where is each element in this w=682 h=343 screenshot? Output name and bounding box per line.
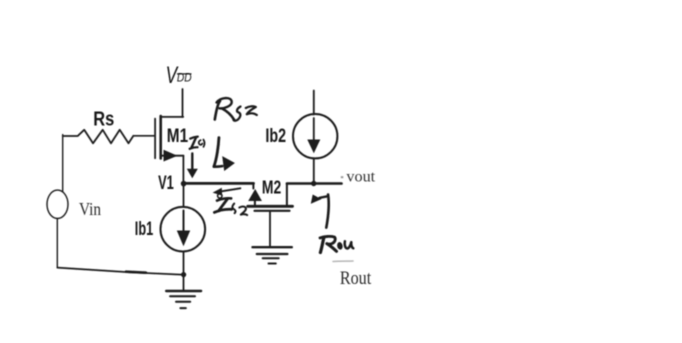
svg-text:Rs: Rs: [93, 109, 114, 131]
svg-text:Vin: Vin: [79, 199, 101, 219]
svg-text:DD: DD: [177, 71, 192, 85]
svg-text:V1: V1: [158, 173, 174, 194]
svg-text:Ib1: Ib1: [135, 219, 154, 240]
svg-text:M1: M1: [167, 125, 188, 147]
svg-text:Ib2: Ib2: [265, 126, 286, 147]
svg-text:vout: vout: [346, 169, 375, 186]
svg-text:Rout: Rout: [340, 269, 372, 289]
svg-text:M2: M2: [262, 178, 281, 198]
